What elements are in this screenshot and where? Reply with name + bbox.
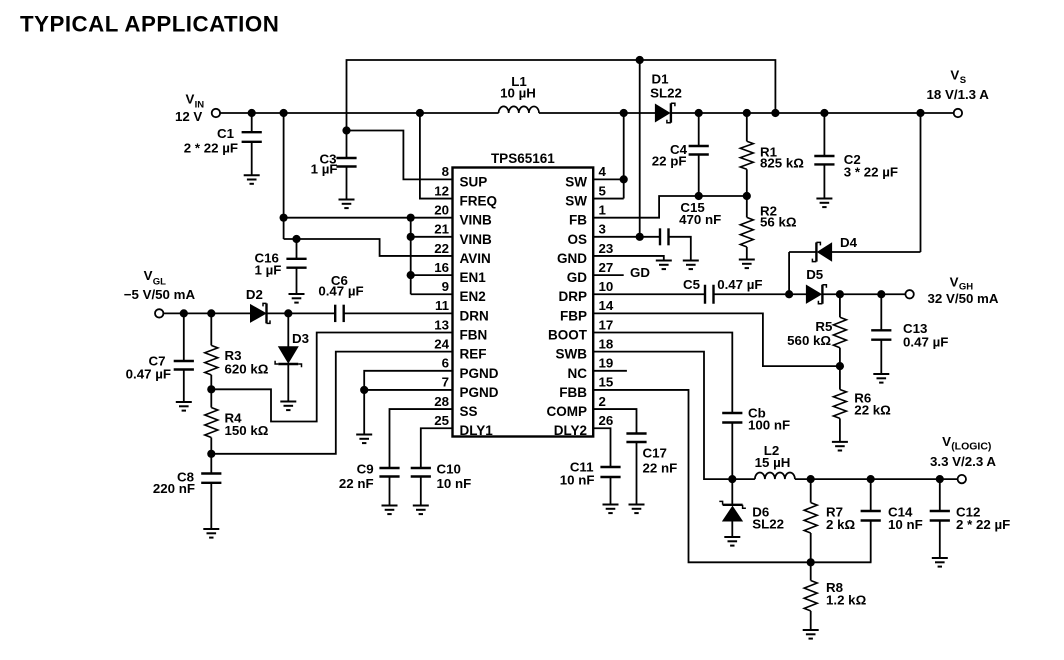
node D4 branch xyxy=(916,109,924,117)
resistor R5 xyxy=(833,294,846,366)
wire DLY2 link xyxy=(593,428,610,467)
svg-text:DRN: DRN xyxy=(460,308,489,323)
svg-text:SUP: SUP xyxy=(460,174,488,189)
svg-text:10 µH: 10 µH xyxy=(500,86,536,101)
resistor R4 xyxy=(205,389,218,454)
terminal VGH xyxy=(905,290,913,298)
ground C11 xyxy=(603,505,619,514)
svg-text:TYPICAL APPLICATION: TYPICAL APPLICATION xyxy=(20,12,279,37)
terminal VLOGIC xyxy=(958,475,966,483)
svg-text:27: 27 xyxy=(599,260,614,275)
node top line to rail xyxy=(771,109,779,117)
svg-text:C10: C10 xyxy=(437,462,461,477)
label VGH xyxy=(928,275,999,307)
wire OS row xyxy=(593,236,660,238)
svg-text:SL22: SL22 xyxy=(650,85,682,100)
svg-text:25: 25 xyxy=(434,413,449,428)
svg-text:1 µF: 1 µF xyxy=(311,162,338,177)
wire FBN net xyxy=(211,333,452,422)
label C13 xyxy=(903,321,948,350)
svg-text:R5: R5 xyxy=(815,319,833,334)
capacitor C11 xyxy=(600,467,620,505)
node SWB Cb D6 junction xyxy=(728,475,736,483)
node C13 top xyxy=(877,290,885,298)
wire D4 net xyxy=(789,113,920,294)
capacitor C14 xyxy=(861,479,881,562)
capacitor C6 xyxy=(335,305,344,322)
label R5 xyxy=(787,319,833,348)
wire SS link xyxy=(390,409,453,468)
resistor R6 xyxy=(833,366,846,442)
capacitor Cb xyxy=(722,413,742,479)
ground C10 xyxy=(413,506,429,515)
wire NC stub xyxy=(593,370,627,372)
svg-text:220 nF: 220 nF xyxy=(153,481,195,496)
wire VINB20 row xyxy=(284,217,453,219)
node VIN branch xyxy=(280,109,288,117)
svg-text:3.3 V/2.3 A: 3.3 V/2.3 A xyxy=(930,454,996,469)
svg-text:EN2: EN2 xyxy=(460,289,486,304)
wire L1 to D1 xyxy=(539,112,656,114)
svg-text:PGND: PGND xyxy=(460,366,499,381)
wire FB net xyxy=(593,196,747,218)
svg-text:13: 13 xyxy=(434,317,449,332)
wire GND pin23 xyxy=(593,256,664,261)
label L1 xyxy=(500,74,536,101)
svg-text:V: V xyxy=(144,268,153,283)
svg-text:D1: D1 xyxy=(652,72,670,87)
label C14 xyxy=(888,505,923,533)
svg-text:OS: OS xyxy=(567,232,587,247)
svg-text:AVIN: AVIN xyxy=(460,251,491,266)
svg-text:470 nF: 470 nF xyxy=(679,212,721,227)
label C9 xyxy=(339,462,374,492)
wire L2 to VLOGIC xyxy=(795,478,958,480)
node R7 R8 junction xyxy=(807,558,815,566)
svg-text:DLY2: DLY2 xyxy=(554,423,587,438)
ground C17 xyxy=(629,505,645,514)
capacitor C7 xyxy=(174,313,194,402)
svg-text:1.2 kΩ: 1.2 kΩ xyxy=(826,592,867,607)
svg-text:GD: GD xyxy=(567,270,588,285)
title TYPICAL APPLICATION xyxy=(20,12,279,37)
terminal VIN xyxy=(212,109,220,117)
svg-text:26: 26 xyxy=(599,413,614,428)
svg-text:21: 21 xyxy=(434,222,449,237)
svg-text:56 kΩ: 56 kΩ xyxy=(760,215,797,230)
node C12 top xyxy=(936,475,944,483)
diode D1 xyxy=(655,103,675,122)
node C16 top xyxy=(292,235,300,243)
ground C1 xyxy=(244,175,260,184)
label VIN xyxy=(175,91,204,124)
svg-text:FBN: FBN xyxy=(460,328,488,343)
svg-text:FB: FB xyxy=(569,213,587,228)
wire D5 to VGH xyxy=(822,293,905,295)
svg-text:150 kΩ: 150 kΩ xyxy=(225,423,269,438)
svg-text:REF: REF xyxy=(460,347,487,362)
svg-text:5: 5 xyxy=(599,183,607,198)
ground C13 xyxy=(873,374,889,383)
label D3 xyxy=(292,331,309,346)
label C11 xyxy=(560,460,595,488)
svg-text:18 V/1.3 A: 18 V/1.3 A xyxy=(927,87,990,102)
node C2 top xyxy=(820,109,828,117)
ground C8 xyxy=(203,529,219,538)
diode D2 xyxy=(251,303,271,323)
svg-text:100 nF: 100 nF xyxy=(748,418,790,433)
label C15 xyxy=(679,200,721,227)
label R7 xyxy=(826,505,855,533)
label Cb xyxy=(748,406,790,433)
svg-text:DRP: DRP xyxy=(558,289,587,304)
wire BOOT net xyxy=(593,333,732,413)
svg-text:2 * 22 µF: 2 * 22 µF xyxy=(956,517,1010,532)
pin numbers and names left side xyxy=(434,164,499,438)
label C8 xyxy=(153,470,195,497)
capacitor C10 xyxy=(411,468,431,506)
wire D2 to C6 xyxy=(267,312,336,314)
capacitor C4 xyxy=(689,113,709,196)
svg-text:23: 23 xyxy=(599,241,614,256)
wire FBP net xyxy=(593,313,840,366)
ground R2 xyxy=(739,260,755,269)
svg-text:15 µH: 15 µH xyxy=(755,455,791,470)
node SW pin4 xyxy=(620,175,628,183)
wire EN1 row xyxy=(411,274,453,276)
diode D6 xyxy=(719,479,746,537)
ground C16 xyxy=(289,294,305,303)
svg-text:18: 18 xyxy=(599,336,614,351)
ground R8 xyxy=(803,630,819,639)
diode D5 xyxy=(806,285,826,304)
wire SW link xyxy=(593,113,624,199)
label L2 xyxy=(755,443,791,470)
node C4 top xyxy=(695,109,703,117)
svg-text:620 kΩ: 620 kΩ xyxy=(225,362,269,377)
svg-text:DLY1: DLY1 xyxy=(460,423,494,438)
svg-text:22: 22 xyxy=(434,241,449,256)
diode D3 xyxy=(275,313,301,401)
label R1 xyxy=(760,145,804,171)
svg-text:19: 19 xyxy=(599,356,614,371)
capacitor C3 xyxy=(336,131,356,200)
svg-text:0.47 µF: 0.47 µF xyxy=(126,367,171,382)
svg-text:NC: NC xyxy=(568,366,588,381)
svg-text:17: 17 xyxy=(599,317,614,332)
svg-text:3 * 22 µF: 3 * 22 µF xyxy=(844,165,898,180)
svg-text:2 * 22 µF: 2 * 22 µF xyxy=(184,141,238,156)
wire top net xyxy=(347,60,776,131)
svg-text:D4: D4 xyxy=(840,235,858,250)
svg-text:C5: C5 xyxy=(683,277,701,292)
svg-text:2: 2 xyxy=(599,394,606,409)
svg-text:22 nF: 22 nF xyxy=(339,476,374,491)
ground C3 xyxy=(339,200,355,209)
node EN vertical top xyxy=(407,214,415,222)
capacitor C16 xyxy=(286,239,306,294)
wire PGND net xyxy=(364,371,452,435)
svg-text:10 nF: 10 nF xyxy=(437,476,472,491)
svg-text:10: 10 xyxy=(599,279,614,294)
node D3 top xyxy=(284,309,292,317)
ground PGND xyxy=(356,435,372,444)
node FREQ branch xyxy=(416,109,424,117)
svg-text:SW: SW xyxy=(565,174,587,189)
svg-text:V: V xyxy=(942,434,951,449)
svg-text:1: 1 xyxy=(599,202,607,217)
resistor R3 xyxy=(205,313,218,389)
svg-text:3: 3 xyxy=(599,222,606,237)
svg-text:12 V: 12 V xyxy=(175,109,202,124)
resistor R8 xyxy=(804,562,817,630)
node R4 C8 junction xyxy=(207,450,215,458)
wire SWB net xyxy=(593,352,755,479)
svg-text:9: 9 xyxy=(442,279,449,294)
svg-text:SW: SW xyxy=(565,194,587,209)
label C2 xyxy=(844,152,898,180)
svg-text:825 kΩ: 825 kΩ xyxy=(760,156,804,171)
svg-text:22 kΩ: 22 kΩ xyxy=(854,403,891,418)
wire VGL to D2 xyxy=(163,312,250,314)
op-amp U1 TPS65161 IC box xyxy=(453,168,594,437)
label C6 xyxy=(318,273,363,299)
wire GD stub xyxy=(593,274,624,276)
wire OS vertical xyxy=(639,60,641,237)
label C10 xyxy=(437,462,472,492)
svg-text:BOOT: BOOT xyxy=(548,328,588,343)
svg-text:VINB: VINB xyxy=(460,213,493,228)
label C4 xyxy=(652,142,688,169)
node VINB21 xyxy=(407,233,415,241)
node R3 R4 junction xyxy=(207,385,215,393)
capacitor C13 xyxy=(871,294,891,374)
svg-text:32 V/50 mA: 32 V/50 mA xyxy=(928,291,999,306)
wire DRP row xyxy=(593,293,705,295)
svg-text:GD: GD xyxy=(630,265,650,280)
svg-text:4: 4 xyxy=(599,164,607,179)
ground C9 xyxy=(382,506,398,515)
node C3 junction xyxy=(342,126,350,134)
node R5 R6 junction xyxy=(836,362,844,370)
label VS xyxy=(927,68,990,102)
svg-text:C17: C17 xyxy=(643,446,667,461)
ground D3 xyxy=(280,402,296,411)
wire DLY1 link xyxy=(421,428,453,468)
svg-text:C9: C9 xyxy=(357,462,374,477)
node PGND junction xyxy=(360,386,368,394)
svg-text:22 pF: 22 pF xyxy=(652,154,687,169)
ground R6 xyxy=(832,442,848,451)
node SW branch xyxy=(620,109,628,117)
node R5 top xyxy=(836,290,844,298)
label C3 xyxy=(311,152,338,177)
node R3 top xyxy=(207,309,215,317)
label TPS65161 xyxy=(491,151,555,166)
svg-text:SL22: SL22 xyxy=(752,517,784,532)
svg-text:GL: GL xyxy=(153,277,166,288)
node C14 top xyxy=(867,475,875,483)
diode D4 xyxy=(812,242,831,261)
capacitor C12 xyxy=(930,479,950,558)
svg-text:COMP: COMP xyxy=(547,404,588,419)
wire SUP link xyxy=(347,131,453,180)
svg-text:24: 24 xyxy=(434,336,449,351)
label C16 xyxy=(255,251,282,278)
svg-text:EN1: EN1 xyxy=(460,270,487,285)
label D5 xyxy=(806,267,824,282)
capacitor C9 xyxy=(379,468,399,506)
label C5 xyxy=(683,277,763,292)
svg-text:560 kΩ: 560 kΩ xyxy=(787,333,831,348)
ground GND23 xyxy=(656,261,672,270)
wire EN vertical xyxy=(410,218,412,295)
node D4 D5 junction xyxy=(785,290,793,298)
label C12 xyxy=(956,505,1010,533)
label D4 xyxy=(840,235,858,250)
node OS junction xyxy=(636,233,644,241)
wire VINB21 row xyxy=(411,236,453,238)
svg-text:12: 12 xyxy=(434,183,449,198)
terminal VGL xyxy=(155,309,163,317)
svg-text:22 nF: 22 nF xyxy=(643,461,678,476)
node C1 top xyxy=(248,109,256,117)
node EN1 xyxy=(407,271,415,279)
label R6 xyxy=(854,391,891,418)
svg-text:20: 20 xyxy=(434,202,449,217)
label C17 xyxy=(643,446,678,476)
svg-text:D3: D3 xyxy=(292,331,309,346)
svg-text:8: 8 xyxy=(442,164,449,179)
inductor L1 xyxy=(499,106,539,113)
resistor R2 xyxy=(740,196,753,260)
wire D1 to VS xyxy=(671,112,954,114)
node R1 top xyxy=(743,109,751,117)
wire COMP link xyxy=(593,409,636,433)
inductor L2 xyxy=(755,473,795,480)
svg-text:FBB: FBB xyxy=(559,385,587,400)
capacitor C8 xyxy=(201,454,221,529)
svg-text:S: S xyxy=(960,75,966,86)
svg-text:28: 28 xyxy=(434,394,449,409)
wire EN2 row xyxy=(411,293,453,295)
terminal VS xyxy=(954,109,962,117)
svg-text:D2: D2 xyxy=(246,287,263,302)
label R8 xyxy=(826,580,867,608)
svg-text:V: V xyxy=(950,275,959,290)
svg-text:1 µF: 1 µF xyxy=(255,263,282,278)
label C7 xyxy=(126,354,171,382)
label VLOGIC xyxy=(930,434,996,469)
svg-text:−5 V/50 mA: −5 V/50 mA xyxy=(124,287,196,302)
svg-text:FBP: FBP xyxy=(560,308,587,323)
svg-text:0.47 µF: 0.47 µF xyxy=(903,335,948,350)
svg-text:PGND: PGND xyxy=(460,385,499,400)
resistor R1 xyxy=(740,113,753,196)
pin numbers and names right side xyxy=(547,164,614,438)
svg-text:2 kΩ: 2 kΩ xyxy=(826,517,855,532)
capacitor C17 xyxy=(626,434,646,505)
svg-text:SS: SS xyxy=(460,404,478,419)
node VINB20 xyxy=(280,214,288,222)
svg-text:16: 16 xyxy=(434,260,449,275)
node R1 R2 junction xyxy=(743,192,751,200)
svg-text:7: 7 xyxy=(442,375,449,390)
wire FREQ link xyxy=(420,113,453,199)
svg-text:C1: C1 xyxy=(217,126,235,141)
wire FBB net xyxy=(593,390,871,562)
svg-text:6: 6 xyxy=(442,356,449,371)
label D6 xyxy=(752,505,784,532)
svg-text:D5: D5 xyxy=(806,267,824,282)
label R4 xyxy=(225,411,269,439)
ground D6 xyxy=(724,537,740,546)
svg-text:TPS65161: TPS65161 xyxy=(491,151,555,166)
svg-text:14: 14 xyxy=(599,298,614,313)
label VGL xyxy=(124,268,196,302)
wire VIN rail to L1 xyxy=(220,112,499,114)
capacitor C1 xyxy=(242,113,262,175)
resistor R7 xyxy=(804,479,817,562)
node R7 top xyxy=(807,475,815,483)
ground C12 xyxy=(932,558,948,567)
svg-text:0.47 µF: 0.47 µF xyxy=(717,277,762,292)
wire REF net xyxy=(211,352,452,454)
capacitor C15 xyxy=(660,228,669,245)
svg-text:(LOGIC): (LOGIC) xyxy=(951,441,991,453)
svg-text:FREQ: FREQ xyxy=(460,194,498,209)
capacitor C5 xyxy=(705,285,714,304)
ground C2 xyxy=(816,199,832,208)
svg-text:10 nF: 10 nF xyxy=(560,473,595,488)
wire C5 to D5 xyxy=(714,293,807,295)
svg-text:V: V xyxy=(186,91,195,106)
label D1 xyxy=(650,72,682,101)
label GD xyxy=(630,265,650,280)
node C7 top xyxy=(180,309,188,317)
label C1 xyxy=(184,126,238,156)
label R3 xyxy=(225,348,269,377)
svg-text:SWB: SWB xyxy=(556,347,588,362)
wire VIN branch vertical xyxy=(283,113,285,239)
wire C6 to DRN pin xyxy=(344,312,453,314)
capacitor C2 xyxy=(814,113,834,199)
node top line OS branch xyxy=(636,56,644,64)
svg-text:0.47 µF: 0.47 µF xyxy=(318,284,363,299)
label R2 xyxy=(760,204,797,230)
svg-text:GND: GND xyxy=(557,251,587,266)
ground C15 xyxy=(683,261,699,270)
wire C15 to ground xyxy=(669,237,691,261)
svg-text:V: V xyxy=(950,68,959,83)
label D2 xyxy=(246,287,263,302)
svg-text:VINB: VINB xyxy=(460,232,493,247)
node C4 bottom xyxy=(695,192,703,200)
ground C7 xyxy=(176,402,192,411)
svg-text:10 nF: 10 nF xyxy=(888,517,923,532)
wire AVIN link xyxy=(284,239,453,256)
svg-text:11: 11 xyxy=(435,298,450,313)
svg-text:15: 15 xyxy=(599,375,614,390)
